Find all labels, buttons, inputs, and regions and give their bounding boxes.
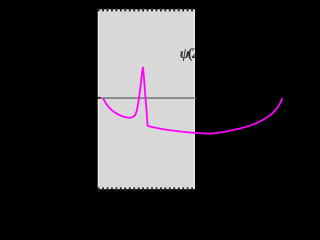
y=0 tick stub on right spine bbox=[195, 97, 196, 99]
y=0 horizontal gridline bbox=[98, 97, 195, 99]
x-axis ticks, bottom edge bbox=[99, 187, 192, 191]
magenta curve psi(2,x) bbox=[103, 68, 282, 134]
x-axis ticks, top edge bbox=[99, 8, 192, 12]
y=0 tick on left spine bbox=[98, 97, 101, 99]
white axes spines (frame) bbox=[98, 10, 194, 188]
axes panel (gray plot area) bbox=[98, 9, 195, 189]
psi(2 label, clipped by panel right edge bbox=[180, 46, 199, 62]
